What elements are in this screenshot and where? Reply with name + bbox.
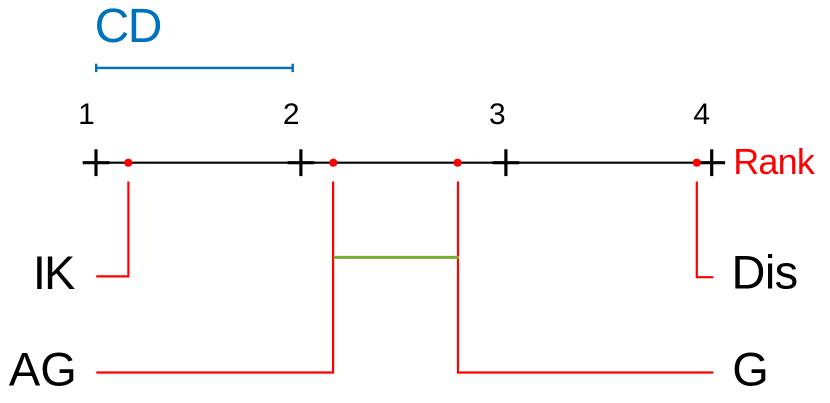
svg-text:IK: IK (33, 246, 75, 299)
svg-text:1: 1 (78, 98, 95, 131)
svg-text:2: 2 (283, 98, 300, 131)
svg-text:3: 3 (489, 98, 506, 131)
svg-text:Dis: Dis (732, 245, 798, 298)
svg-text:G: G (732, 342, 769, 395)
svg-text:4: 4 (693, 98, 710, 131)
svg-text:AG: AG (9, 342, 77, 395)
svg-text:Rank: Rank (733, 141, 816, 182)
svg-text:CD: CD (95, 0, 161, 53)
